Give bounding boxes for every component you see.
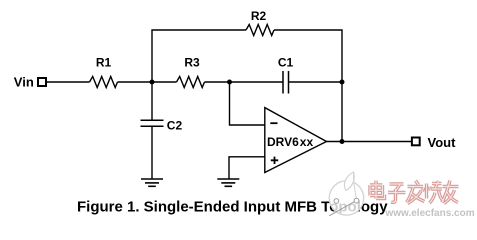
svg-text:www.elecfans.com: www.elecfans.com xyxy=(385,208,475,219)
svg-text:C1: C1 xyxy=(278,56,294,70)
svg-text:C2: C2 xyxy=(167,118,183,132)
svg-text:Vin: Vin xyxy=(14,75,34,90)
svg-text:R2: R2 xyxy=(251,9,267,23)
svg-text:R1: R1 xyxy=(96,56,112,70)
svg-text:Vout: Vout xyxy=(428,135,457,150)
svg-text:DRV6xx: DRV6xx xyxy=(267,135,313,149)
svg-text:R3: R3 xyxy=(184,56,200,70)
